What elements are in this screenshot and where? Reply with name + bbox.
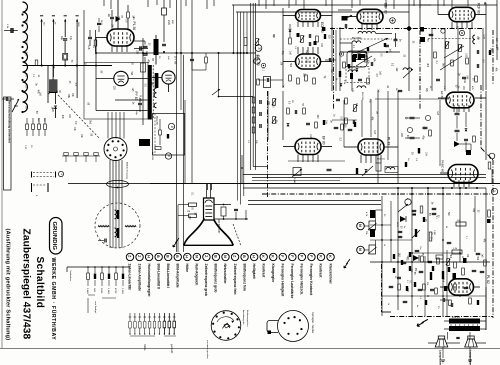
svg-text:0,25: 0,25: [482, 35, 484, 40]
box Aenderungen vorbehalten: [4, 97, 12, 190]
svg-text:Netzschalter: Netzschalter: [223, 264, 227, 285]
capacitor x395: [394, 38, 398, 40]
pot sliders row: [129, 313, 131, 321]
svg-text:Bildfrequenz fein: Bildfrequenz fein: [242, 264, 246, 292]
caps right of PL36: [143, 45, 148, 47]
resistor 10k: [456, 222, 466, 226]
component cluster y120-145: [26, 124, 29, 130]
wire x336/x340: [335, 30, 337, 91]
circled terminal far right: [489, 153, 495, 159]
svg-text:50k: 50k: [426, 282, 428, 285]
wire triple verticals x250-258: [250, 3, 252, 170]
PCB box BV11/58: [153, 114, 185, 156]
tube ECL80 II: [296, 54, 321, 69]
antenna test arrows: [41, 19, 43, 22]
svg-text:H: H: [147, 255, 151, 258]
components between ECL80: [289, 29, 292, 32]
dash-dot right boundary: [492, 30, 494, 85]
tube PL82: [449, 279, 474, 295]
svg-text:K: K: [271, 255, 275, 258]
circled pin: [339, 52, 343, 56]
trimmer at 216,92: [212, 89, 220, 95]
CRT lightning: [171, 238, 181, 247]
diamond node: [406, 26, 412, 32]
capacitor C PL36 anode: [139, 46, 141, 51]
cap 5k: [398, 89, 403, 91]
svg-text:Bildrohr-Fassung: Bildrohr-Fassung: [126, 162, 129, 179]
trimmer diag: [398, 204, 408, 212]
CRT electrodes: [205, 205, 212, 207]
svg-text:Helligkeit: Helligkeit: [252, 264, 256, 280]
svg-text:BV8-421: BV8-421: [452, 317, 461, 319]
dense audio top cluster: [419, 270, 424, 272]
svg-text:BV4-592: BV4-592: [352, 37, 362, 40]
wire y53 bus: [96, 52, 256, 54]
svg-text:1k: 1k: [383, 244, 385, 246]
windings in dashed box: [348, 70, 357, 72]
circled e: [58, 171, 63, 176]
svg-text:H: H: [185, 255, 189, 258]
capacitor near PY83: [139, 47, 141, 51]
svg-text:Bild-Amplitude: Bild-Amplitude: [175, 264, 179, 288]
components left of PL82: [414, 282, 416, 287]
svg-text:K: K: [318, 255, 322, 258]
svg-text:PL 82: PL 82: [486, 275, 490, 284]
svg-text:80: 80: [483, 2, 487, 6]
tube PL83: [358, 139, 384, 155]
if transformer boxes: [352, 53, 358, 60]
svg-text:EBF 80: EBF 80: [384, 3, 388, 14]
tube EF85: [446, 92, 474, 108]
svg-text:MW 36-44/57: MW 36-44/57: [217, 219, 220, 234]
svg-text:Bel-U58: Bel-U58: [151, 152, 153, 161]
dash-dot box left boundary: [381, 264, 383, 312]
svg-text:PCF 80: PCF 80: [477, 3, 481, 14]
wire PCF80 pins: [451, 22, 453, 28]
wire CRT feeds: [207, 184, 209, 191]
wire y161 y180: [288, 160, 345, 162]
remote socket: [278, 311, 309, 342]
resistors left of neck: [189, 203, 197, 206]
resistor R3: [94, 40, 97, 46]
components above EF80: [287, 108, 290, 114]
svg-text:10n: 10n: [419, 246, 421, 249]
svg-text:PABC 80: PABC 80: [441, 160, 445, 172]
svg-text:470Ω: 470Ω: [114, 288, 116, 294]
svg-text:560Ω: 560Ω: [100, 288, 102, 294]
tube PY83: [114, 71, 128, 85]
components under PCF80: [431, 28, 433, 91]
svg-text:500p: 500p: [135, 110, 137, 116]
svg-text:1M: 1M: [425, 152, 427, 155]
svg-text:1k: 1k: [387, 303, 389, 305]
wire right columns: [377, 91, 379, 183]
top stubs: [103, 0, 105, 6]
parts row y152-162 x60-100: [62, 155, 100, 157]
capacitor C3: [63, 38, 67, 40]
wire verticals deflection grid: [381, 196, 383, 316]
tube PCF80: [449, 7, 475, 21]
svg-text:WERKE GMBH · FÜRTH/BAY: WERKE GMBH · FÜRTH/BAY: [50, 258, 57, 341]
trimmers sync: [446, 42, 449, 49]
svg-text:47p: 47p: [69, 36, 72, 41]
svg-text:5,6kΩ: 5,6kΩ: [86, 288, 88, 294]
circled A: [405, 199, 411, 205]
resistor box y252: [452, 250, 462, 254]
components above PL36: [110, 16, 114, 18]
svg-text:B III: B III: [25, 40, 28, 45]
caps cluster r1: [412, 209, 417, 211]
svg-text:PL 36: PL 36: [132, 22, 136, 31]
components below ECL80 II: [289, 75, 292, 81]
wire y96.5: [219, 96, 254, 98]
coil L1 antenna chain: [23, 2, 28, 112]
speaker 1: [438, 336, 444, 339]
lightning at box corner: [342, 259, 352, 268]
components right x336-360 y95-135: [336, 98, 340, 100]
svg-text:B250: B250: [396, 222, 398, 228]
socket wires down: [109, 160, 111, 203]
svg-text:0,25: 0,25: [306, 59, 308, 64]
resistor R2: [35, 60, 38, 66]
wire x283: [282, 8, 284, 88]
wire bus y188: [243, 187, 486, 189]
svg-text:PY 83: PY 83: [134, 92, 138, 101]
dash-dot audio boundary: [390, 316, 493, 318]
svg-text:BV4-553: BV4-553: [361, 92, 363, 101]
svg-text:A: A: [407, 197, 409, 201]
cap chain x452-462: [455, 112, 460, 114]
svg-text:Bildfrequenz grob: Bildfrequenz grob: [214, 264, 218, 293]
wire audio verticals: [424, 256, 426, 316]
capacitor C2: [5, 97, 7, 101]
svg-text:N: N: [358, 224, 362, 227]
resistor stack x164: [162, 8, 167, 15]
svg-text:B III: B III: [25, 52, 28, 57]
tube DY86: [162, 71, 175, 84]
trimmers x358-375: [356, 56, 372, 66]
left parallel line x143: [142, 38, 144, 125]
winding right of bar: [154, 88, 156, 98]
wire y100 y110: [115, 99, 148, 101]
wire bottom rule y348: [0, 348, 500, 350]
svg-text:Zauberspiegel 437/438: Zauberspiegel 437/438: [21, 229, 32, 340]
resistor row y78-88 x255-275: [264, 77, 271, 88]
circled M: [255, 45, 262, 52]
extra audio parts: [402, 261, 407, 263]
tube EF80: [295, 139, 321, 155]
svg-text:1M: 1M: [495, 47, 497, 50]
winding BV4-553: [357, 86, 366, 88]
wire 5-line bus top: [233, 5, 235, 53]
svg-text:Bedienungselem.: Bedienungselem.: [246, 310, 248, 327]
group labels: [130, 335, 155, 337]
PCB box PY83: [84, 63, 148, 120]
left column parts x370-378: [370, 210, 375, 218]
dash-dot boundary vertical x267.5: [267, 91, 269, 197]
svg-text:PL 83: PL 83: [387, 137, 391, 145]
terminals with pots: [357, 222, 365, 230]
svg-text:Fernregler Lautstärke: Fernregler Lautstärke: [290, 264, 294, 299]
lightning audio: [417, 318, 428, 328]
svg-text:Bereichsumschaltung vorbereite: Bereichsumschaltung vorbereitet: [8, 100, 12, 143]
svg-text:+dB: +dB: [87, 45, 90, 50]
trimmer x255: [256, 39, 259, 46]
trimmer black: [415, 229, 417, 237]
svg-text:Kontrast: Kontrast: [261, 264, 265, 279]
circled dot: [261, 63, 265, 67]
svg-text:B: B: [166, 255, 170, 258]
wire verticals x340-352: [339, 30, 341, 91]
wire horizontals deflection: [370, 224, 391, 226]
svg-text:0,25: 0,25: [344, 123, 346, 128]
svg-text:Höhe: Höhe: [185, 264, 189, 273]
svg-text:Zeilen-Linearität: Zeilen-Linearität: [128, 264, 132, 291]
circled marks: [407, 127, 412, 132]
yoke coil 2: [115, 228, 117, 237]
flyback transformer bar T2: [148, 65, 152, 120]
CRT right components: [214, 204, 231, 206]
wire y200: [248, 200, 381, 202]
heater wires to socket: [107, 112, 109, 139]
svg-text:GRUNDIG: GRUNDIG: [51, 222, 57, 251]
svg-text:Zeilenfrequenz fein: Zeilenfrequenz fein: [233, 264, 237, 295]
dashed y38.5 + coil: [428, 38, 472, 40]
tube PL36: [107, 29, 134, 46]
dashed diagonal linkage: [58, 95, 100, 139]
pins under PL36: [111, 46, 113, 52]
svg-text:N: N: [358, 248, 362, 251]
black parts y44: [384, 43, 386, 47]
svg-text:B: B: [213, 255, 217, 258]
capacitor C1: [10, 28, 12, 33]
svg-text:Null-Abgleich: Null-Abgleich: [195, 264, 199, 286]
capacitor x164: [162, 43, 166, 45]
terminal row: [126, 253, 133, 260]
circled sym right: [390, 18, 396, 24]
yoke coil 1: [115, 210, 117, 219]
svg-text:Zeilen-Amplitude: Zeilen-Amplitude: [137, 264, 141, 292]
resistor right edge: [488, 210, 491, 217]
svg-text:1M: 1M: [187, 211, 190, 213]
components x405-430 y110-160: [410, 116, 415, 118]
svg-text:2: 2: [492, 190, 496, 192]
ladder resistors: [87, 267, 89, 273]
wire y120: [332, 119, 357, 121]
svg-text:0,25: 0,25: [309, 134, 311, 139]
rectifier D1: [63, 54, 68, 61]
wires through yoke: [109, 203, 111, 248]
diode arrow left: [344, 15, 352, 20]
svg-text:gedruckt: gedruckt: [170, 344, 173, 354]
mid band component row y163-180: [293, 168, 301, 176]
extra dots y188: [451, 187, 453, 189]
svg-text:BV11/58: BV11/58: [155, 116, 157, 125]
parts near PL36 grid: [97, 22, 101, 24]
svg-text:B I: B I: [25, 106, 28, 109]
output transformer: [449, 319, 480, 324]
diode D defl: [400, 216, 406, 222]
svg-text:UKW: UKW: [77, 22, 79, 27]
svg-text:Fernregler - Stecker: Fernregler - Stecker: [311, 312, 314, 333]
svg-text:Klangregler: Klangregler: [271, 264, 275, 284]
svg-text:zum Tastkopf: zum Tastkopf: [94, 301, 97, 314]
CRT dashed side: [233, 224, 241, 246]
dash-dot chassis y194: [262, 193, 490, 195]
rotary switch dial: [211, 311, 241, 341]
wire main horizontal bus y183: [68, 183, 500, 185]
svg-text:1M: 1M: [111, 24, 113, 27]
audio caps row y295-305: [442, 298, 444, 302]
svg-text:8n: 8n: [416, 305, 418, 307]
svg-text:B II: B II: [25, 73, 28, 77]
winding core bar right: [155, 73, 159, 88]
parts in PCB box: [159, 130, 162, 135]
socket circles TF: [168, 123, 174, 129]
svg-text:Tastbuchse: Tastbuchse: [69, 270, 72, 282]
svg-text:2n: 2n: [403, 226, 405, 228]
svg-text:Anordnung der: Anordnung der: [242, 310, 245, 325]
sawtooth marks: [98, 225, 109, 227]
junction dots on y188: [397, 187, 399, 189]
wire EBF80 pins: [361, 24, 363, 31]
diode low: [413, 255, 419, 261]
diode D2: [54, 106, 57, 109]
wire y160-180 horizontals: [243, 174, 486, 176]
logo GRUNDIG oval: [50, 218, 63, 255]
svg-text:N: N: [194, 255, 198, 258]
svg-text:Kontrast: Kontrast: [319, 264, 323, 279]
svg-text:m: m: [36, 195, 38, 197]
EF80 pins: [297, 155, 299, 163]
svg-text:22p: 22p: [60, 36, 63, 41]
svg-text:N: N: [223, 255, 227, 258]
svg-text:1M: 1M: [279, 62, 281, 65]
resistor x430: [429, 232, 432, 241]
tube socket top view: [104, 138, 127, 161]
wire long verticals center: [191, 0, 193, 183]
svg-text:Röhre: Röhre: [143, 344, 146, 351]
svg-text:1,2kΩ: 1,2kΩ: [107, 288, 109, 294]
caps x400: [398, 230, 403, 232]
components ratio: [328, 58, 330, 62]
svg-text:B I: B I: [25, 8, 28, 11]
tube ECL80 I: [296, 10, 321, 22]
trimmer pair x270-280: [273, 99, 276, 106]
svg-text:(Ausführung mit gedruckter Sch: (Ausführung mit gedruckter Schaltung): [5, 229, 11, 341]
wire tuner bus y65: [23, 65, 113, 67]
svg-text:Schaltbild: Schaltbild: [34, 257, 45, 309]
coil with trimmer right: [403, 68, 412, 70]
chassis dash-dot verticals: [333, 30, 335, 110]
wire pcb verticals: [183, 55, 185, 252]
svg-text:1M5: 1M5: [167, 20, 170, 25]
booster transformer bar T1: [154, 39, 159, 55]
tiny value labels scatter: [34, 14, 497, 293]
dash-dot top boundary: [330, 28, 482, 30]
defl lower extra: [389, 285, 394, 287]
dashed bracket component x31-55 y171-177: [31, 172, 33, 178]
right edge verticals: [485, 3, 487, 90]
tuner drum block: [49, 80, 58, 94]
diag arrow across coil top: [358, 38, 388, 52]
svg-text:Bild-Linearität II: Bild-Linearität II: [156, 264, 160, 290]
svg-text:von unten gesehen: von unten gesehen: [206, 340, 209, 359]
svg-text:B: B: [175, 255, 179, 258]
yoke ellipse: [107, 180, 129, 187]
pot group 2: [164, 313, 166, 321]
svg-text:H: H: [252, 255, 256, 258]
tube EBF80: [357, 9, 383, 23]
svg-text:Klarzeichner: Klarzeichner: [328, 264, 332, 285]
parts below y53 bus: [190, 58, 194, 60]
svg-text:5k: 5k: [445, 226, 447, 228]
cluster between EF80 and PL83: [334, 126, 339, 128]
cap x449: [447, 241, 452, 243]
svg-text:Zeilenfrequenz grob: Zeilenfrequenz grob: [204, 264, 208, 296]
components column x252-262 y95-135: [252, 97, 255, 103]
svg-text:2,2kΩ: 2,2kΩ: [121, 288, 123, 294]
svg-text:Bild-Linearität I: Bild-Linearität I: [166, 264, 170, 289]
svg-text:Lautsprecher: Lautsprecher: [439, 350, 442, 365]
dashed circle yoke assembly: [95, 203, 140, 248]
plug shape: [267, 321, 278, 333]
dashed small box: [346, 67, 369, 83]
tube PABC80: [448, 165, 478, 183]
black part x405 y210: [405, 162, 407, 167]
speaker wires: [428, 342, 437, 344]
diode cap right x462-472: [464, 138, 468, 140]
wire bus continuation down: [237, 53, 239, 201]
svg-text:1M: 1M: [466, 254, 468, 257]
svg-text:BS4-551: BS4-551: [377, 159, 386, 161]
svg-text:Fernregler Netzsch.: Fernregler Netzsch.: [300, 264, 304, 296]
components audio above: [393, 254, 395, 259]
wire y204.5: [248, 204, 381, 206]
svg-text:EF 80: EF 80: [322, 136, 326, 145]
wire left paper edge: [1, 0, 3, 348]
wire x332: [331, 0, 333, 91]
wire top x420-431: [420, 4, 431, 6]
IF can rounded box: [347, 51, 367, 67]
potentiometer arrow P1: [12, 99, 19, 112]
wire verticals left of EF80: [267, 91, 269, 140]
CRT neck: [204, 198, 215, 220]
svg-text:B II: B II: [25, 20, 28, 24]
svg-text:B: B: [242, 255, 246, 258]
circled 2 right edge: [491, 188, 497, 194]
circled M2: [254, 58, 260, 64]
black label box Ablenkeinheit: [139, 139, 150, 146]
wire top chassis borders: [232, 4, 497, 6]
svg-text:1M: 1M: [325, 120, 327, 123]
speaker 2: [468, 336, 474, 339]
svg-text:Fernregler Kontrast: Fernregler Kontrast: [309, 264, 313, 297]
CRT dome cap: [205, 200, 212, 203]
svg-text:Horizontalfangregler: Horizontalfangregler: [147, 264, 151, 298]
svg-text:1kΩ: 1kΩ: [93, 288, 95, 292]
wire y267 ladder bus: [67, 266, 130, 268]
coil under EBF80: [358, 31, 376, 33]
svg-text:PH26: PH26: [100, 20, 102, 26]
CRT bell: [184, 220, 233, 245]
svg-text:B I: B I: [25, 85, 28, 88]
svg-text:DY 86: DY 86: [174, 56, 178, 65]
ECL80 pin wires: [297, 22, 299, 28]
svg-text:K: K: [328, 255, 332, 258]
svg-text:Fernregler Helligkeit: Fernregler Helligkeit: [281, 264, 285, 298]
svg-text:K: K: [261, 255, 265, 258]
